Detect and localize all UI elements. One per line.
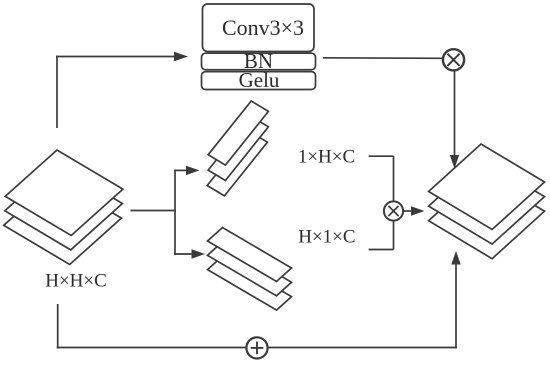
box Conv3x3 — [203, 4, 315, 52]
arrow multiply top down to output stack — [450, 71, 459, 169]
input stack HxHxC — [4, 150, 123, 265]
svg-text:Gelu: Gelu — [239, 68, 280, 92]
stack Hx1xC (long thin sheets) — [208, 228, 292, 311]
svg-text:Conv3×3: Conv3×3 — [222, 15, 304, 40]
wire bottom left vertical — [57, 304, 59, 348]
wire 1xHxC to bracket — [369, 155, 394, 157]
wire branch vertical — [174, 170, 176, 255]
wire input up vertical — [56, 56, 58, 128]
box BN — [202, 49, 316, 73]
wire stack to branch — [131, 210, 176, 212]
arrow branch to 1xHxC stack — [174, 166, 199, 175]
wire bottom horizontal — [57, 347, 457, 349]
wire BN to multiply top — [323, 57, 443, 60]
multiply circle top — [443, 49, 464, 70]
arrow input to Conv — [56, 52, 188, 61]
arrow bottom up into output stack — [451, 251, 460, 348]
wire bracket vertical — [393, 156, 395, 249]
svg-text:1×H×C: 1×H×C — [298, 146, 355, 167]
box Gelu — [202, 68, 316, 92]
arrow branch to Hx1xC stack — [174, 249, 205, 258]
svg-text:H×H×C: H×H×C — [45, 271, 107, 292]
output stack — [429, 144, 545, 259]
svg-text:H×1×C: H×1×C — [298, 227, 355, 248]
stack 1xHxC (tilted thin sheets) — [207, 101, 268, 196]
arrow multiply to output stack — [403, 206, 425, 215]
multiply circle mid — [384, 201, 403, 220]
wire Hx1xC to bracket — [369, 249, 394, 251]
add circle bottom — [246, 337, 267, 358]
